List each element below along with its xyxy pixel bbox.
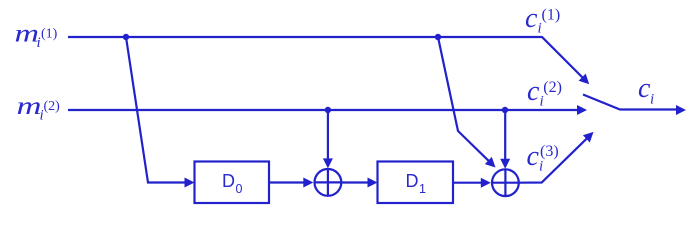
svg-text:c: c <box>527 76 540 107</box>
svg-text:c: c <box>527 141 540 172</box>
svg-text:i: i <box>539 159 543 175</box>
svg-text:i: i <box>650 92 654 108</box>
svg-text:c: c <box>525 3 538 34</box>
svg-text:m: m <box>17 93 42 120</box>
svg-text:m: m <box>15 21 40 48</box>
svg-text:(1): (1) <box>542 6 561 23</box>
svg-text:(1): (1) <box>41 26 58 41</box>
svg-text:D: D <box>406 171 419 191</box>
svg-text:D: D <box>222 171 235 191</box>
svg-text:0: 0 <box>236 182 243 196</box>
svg-text:(3): (3) <box>540 143 559 160</box>
svg-text:(2): (2) <box>44 99 61 114</box>
svg-text:1: 1 <box>419 182 426 196</box>
svg-text:(2): (2) <box>543 79 562 96</box>
